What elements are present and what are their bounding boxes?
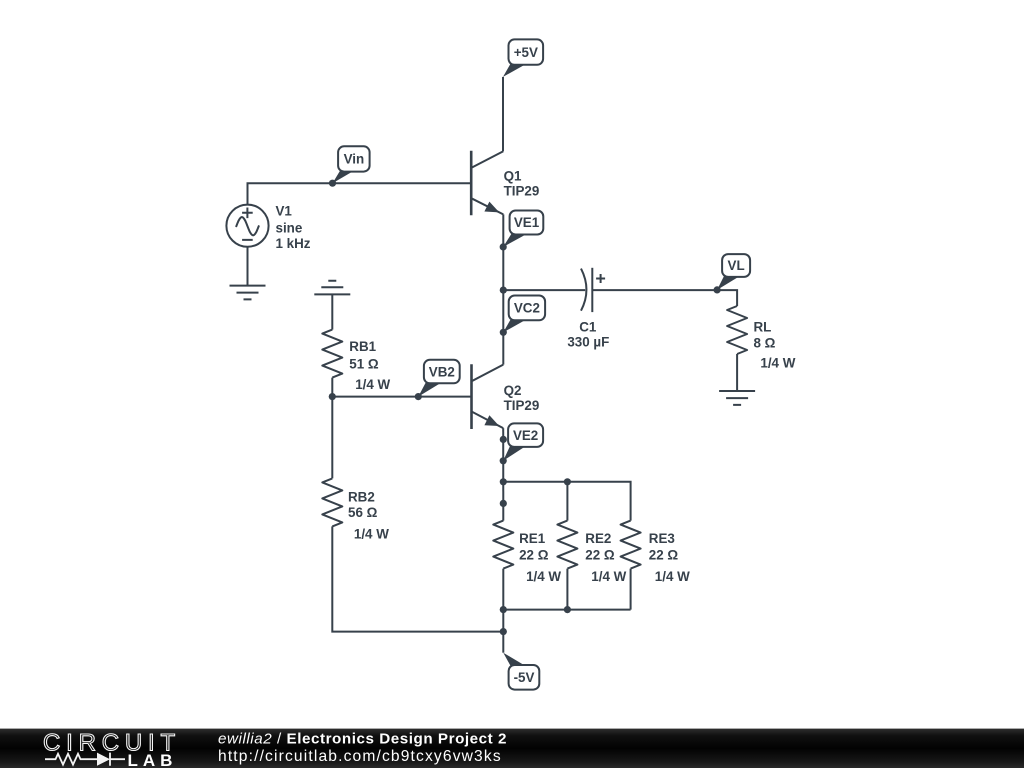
node flag VE2 (503, 423, 543, 460)
svg-text:TIP29: TIP29 (504, 398, 540, 413)
wire RL bottom to ground (736, 354, 738, 391)
label RL value (754, 319, 796, 370)
node flag VC2 (503, 296, 545, 333)
svg-text:TIP29: TIP29 (504, 184, 540, 199)
svg-text:Q1: Q1 (504, 168, 522, 183)
svg-text:1/4 W: 1/4 W (591, 569, 626, 584)
svg-text:sine: sine (276, 220, 303, 235)
svg-text:VE1: VE1 (514, 215, 540, 230)
svg-text:330 µF: 330 µF (567, 335, 609, 350)
svg-text:51 Ω: 51 Ω (349, 356, 379, 371)
label RE2 value (585, 531, 626, 584)
node flag VB2 (418, 360, 459, 397)
node flag VL (717, 254, 750, 290)
ground below V1 (230, 286, 266, 300)
node flag VE1 (503, 211, 543, 247)
svg-text:RB1: RB1 (349, 339, 376, 354)
resistor RB1 51ohm (322, 330, 342, 378)
resistor RB2 56ohm (322, 478, 342, 526)
svg-text:VB2: VB2 (429, 364, 455, 379)
svg-text:V1: V1 (276, 203, 293, 218)
svg-text:22 Ω: 22 Ω (585, 548, 615, 563)
svg-text:1/4 W: 1/4 W (355, 377, 390, 392)
svg-text:1 kHz: 1 kHz (276, 236, 311, 251)
wire RB2 bottom to -5V rail (332, 526, 503, 631)
ground above RB1 (flipped) (314, 281, 350, 295)
wire Q1 emitter down VE1 to VC2 node (502, 214, 504, 364)
label C1 value (567, 319, 609, 349)
svg-text:VL: VL (728, 258, 745, 273)
label Q1 TIP29 (504, 168, 540, 198)
label RB1 value (349, 339, 390, 392)
svg-text:RE1: RE1 (519, 531, 546, 546)
svg-text:-5V: -5V (514, 670, 535, 685)
svg-text:1/4 W: 1/4 W (655, 569, 690, 584)
wire Q2 emitter down through VE2 to RE1 (502, 428, 504, 520)
svg-text:RE2: RE2 (585, 531, 611, 546)
node flag -5V (503, 653, 539, 690)
svg-text:C1: C1 (579, 319, 597, 334)
svg-text:VC2: VC2 (514, 301, 540, 316)
svg-text:RL: RL (754, 319, 772, 334)
wire emitter node to C1 (503, 289, 585, 291)
resistor RE3 22ohm (621, 521, 641, 569)
transistor Q2 TIP29 (472, 364, 504, 429)
label RE1 value (519, 531, 561, 584)
node flag Vin (333, 146, 370, 183)
label Q2 TIP29 (504, 383, 540, 413)
svg-text:Q2: Q2 (504, 383, 522, 398)
wire RB1/RB2 junction down (331, 397, 333, 479)
svg-text:RB2: RB2 (348, 489, 375, 504)
voltage source V1 (226, 205, 268, 247)
label RB2 value (348, 489, 389, 541)
label V1 value (276, 203, 311, 250)
svg-text:1/4 W: 1/4 W (354, 526, 389, 541)
wire V1 bottom to ground (247, 247, 249, 286)
ground below RL (719, 391, 755, 405)
svg-text:56 Ω: 56 Ω (348, 505, 378, 520)
svg-text:1/4 W: 1/4 W (760, 355, 795, 370)
junction dots (329, 180, 721, 636)
wire RE2 top lead (566, 482, 568, 521)
node flag +5V (503, 39, 543, 77)
svg-text:+5V: +5V (514, 45, 538, 60)
svg-text:1/4 W: 1/4 W (526, 569, 561, 584)
wire +5V to Q1 collector (502, 77, 504, 151)
wire RE top rail (503, 482, 630, 521)
svg-text:RE3: RE3 (649, 531, 675, 546)
resistor RL 8ohm (727, 306, 747, 354)
svg-text:LAB: LAB (128, 751, 178, 768)
wire ground to RB1 top (331, 294, 333, 329)
CircuitLab logo resistor-diode glyph (45, 753, 125, 766)
wire RE bottom rail (503, 569, 630, 610)
svg-text:Vin: Vin (344, 152, 365, 167)
resistor RE2 22ohm (557, 521, 577, 569)
svg-text:http://circuitlab.com/cb9tcxy6: http://circuitlab.com/cb9tcxy6vw3ks (218, 748, 502, 765)
svg-text:ewillia2 / Electronics Design: ewillia2 / Electronics Design Project 2 (218, 731, 507, 748)
wire RE rail down to -5V anchor (502, 610, 504, 653)
resistor RE1 22ohm (493, 521, 513, 569)
wire RB1 bottom to VB2 node to Q2 base (332, 378, 471, 397)
svg-text:8 Ω: 8 Ω (754, 335, 776, 350)
svg-text:22 Ω: 22 Ω (649, 548, 679, 563)
transistor Q1 TIP29 (471, 151, 503, 216)
label RE3 value (649, 531, 690, 584)
svg-text:VE2: VE2 (513, 428, 538, 443)
svg-text:22 Ω: 22 Ω (519, 548, 549, 563)
capacitor C1 330uF polarized (581, 268, 605, 312)
wire Vin net: V1 top to Q1 base (248, 183, 472, 205)
wire C1 to VL to RL top (592, 290, 737, 306)
